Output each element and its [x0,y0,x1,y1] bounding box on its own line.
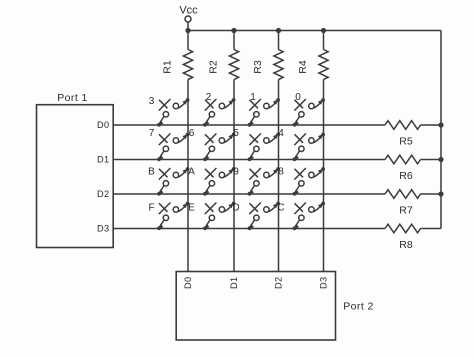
svg-text:D3: D3 [97,223,110,233]
svg-text:5: 5 [233,128,239,139]
svg-text:F: F [148,203,154,214]
svg-text:B: B [148,167,155,178]
svg-text:R3: R3 [252,60,264,74]
svg-text:D: D [232,203,239,214]
svg-text:D0: D0 [183,276,193,289]
svg-text:9: 9 [233,167,239,178]
svg-text:1: 1 [250,92,256,103]
svg-text:R1: R1 [162,60,174,74]
svg-text:3: 3 [149,96,155,107]
svg-text:2: 2 [206,92,212,103]
svg-text:R8: R8 [399,239,413,251]
svg-text:Vcc: Vcc [179,5,198,17]
svg-text:R2: R2 [208,60,220,74]
svg-text:R4: R4 [297,60,309,74]
svg-text:C: C [277,203,284,214]
svg-text:0: 0 [295,92,301,103]
svg-text:R5: R5 [399,136,413,148]
svg-text:A: A [188,167,195,178]
svg-text:D2: D2 [97,189,110,199]
svg-text:D3: D3 [319,276,329,289]
svg-text:Port 1: Port 1 [57,92,87,104]
svg-text:4: 4 [278,128,284,139]
svg-text:D2: D2 [274,276,284,289]
svg-text:R6: R6 [399,170,413,182]
svg-text:7: 7 [149,128,155,139]
svg-text:6: 6 [189,128,195,139]
svg-text:8: 8 [278,167,284,178]
svg-text:D1: D1 [229,276,239,289]
svg-text:D0: D0 [97,120,110,130]
svg-text:Port 2: Port 2 [343,301,373,313]
svg-text:E: E [188,203,195,214]
svg-text:D1: D1 [97,154,110,164]
svg-text:R7: R7 [399,205,413,217]
